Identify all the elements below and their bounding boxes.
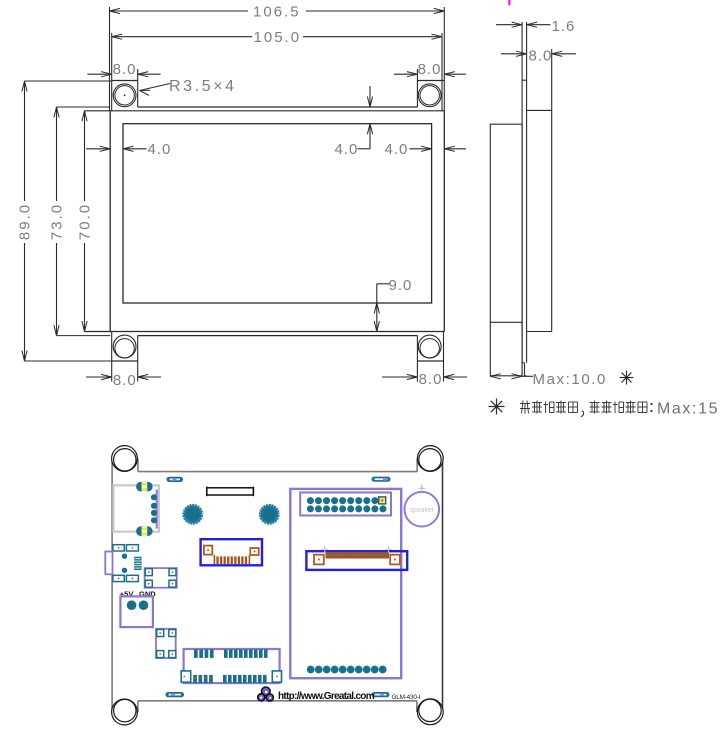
dimension 8.0 bottom-left <box>86 372 161 389</box>
power terminal block <box>120 596 152 627</box>
side view glass block <box>490 124 522 376</box>
top-left mounting tab <box>112 69 138 107</box>
dimension 8.0 top-left <box>87 61 160 78</box>
speaker SP1 <box>405 485 440 527</box>
side connector on board edge <box>105 552 112 575</box>
Greatal logo <box>258 687 274 701</box>
asterisk star after Max:10.0 <box>620 371 634 385</box>
svg-text:106.5: 106.5 <box>253 4 301 21</box>
svg-text:89.0: 89.0 <box>17 203 34 240</box>
note Max:15 <box>657 401 719 418</box>
side view metal plate <box>522 22 527 376</box>
crystal Y1 <box>207 487 254 497</box>
dimension 70.0 <box>77 111 94 332</box>
label R3.5x4 <box>140 78 237 95</box>
svg-text:8.0: 8.0 <box>419 371 443 388</box>
dimension 4.0 right <box>385 141 467 158</box>
header J2 pins row 2 <box>307 505 387 512</box>
svg-text:70.0: 70.0 <box>77 203 94 240</box>
bottom-right mounting tab <box>417 332 443 382</box>
svg-text:speaker: speaker <box>409 507 435 514</box>
note Chinese text: wu tongxun mokuai, jia tongxun mokuai: <box>520 401 653 417</box>
resistor pads R3 R4 <box>113 575 138 581</box>
resistor pads R1 R2 <box>113 545 138 551</box>
via dots <box>122 554 127 574</box>
module outer right edge (106.5 extension) <box>443 7 445 111</box>
dimension 8.0 side <box>501 48 576 65</box>
bottom connector J5 <box>181 649 281 683</box>
display window <box>123 124 432 303</box>
dimension 4.0 left <box>86 141 171 158</box>
dimension 4.0 middle vertical <box>335 86 373 158</box>
dimension 105.0 <box>112 29 442 46</box>
jumper JP4 bottom-right <box>372 692 390 697</box>
bottom-left mounting tab <box>112 332 138 382</box>
svg-text:8.0: 8.0 <box>418 61 442 78</box>
mounting hole top-left R3.5 <box>113 84 136 107</box>
label +5V GND <box>120 590 156 599</box>
jumper JP1 top-left <box>167 477 184 482</box>
side view module body 8.0 deep <box>527 49 552 332</box>
dimension 73.0 <box>49 107 66 336</box>
PCB mounting hole top-left <box>112 446 138 472</box>
USB shield pad top <box>136 482 153 492</box>
module inner right edge (105.0 extension / tab side) <box>441 33 443 111</box>
svg-text:4.0: 4.0 <box>335 141 359 158</box>
svg-text:R3.5×4: R3.5×4 <box>169 78 237 95</box>
pad stack <box>134 557 141 570</box>
module inner left edge (105.0 extension / tab side) <box>111 33 113 111</box>
svg-text:4.0: 4.0 <box>148 141 172 158</box>
component U2 with 4 pads <box>145 568 177 588</box>
FPC connector J3 <box>201 539 262 565</box>
module bottom pin row <box>307 666 387 674</box>
svg-text:Max:15: Max:15 <box>657 401 719 418</box>
USB pins <box>151 494 157 523</box>
svg-text:8.0: 8.0 <box>113 372 137 389</box>
PCB mounting hole bottom-left <box>112 699 138 725</box>
bezel seam bottom <box>57 335 418 337</box>
mounting hole bottom-right R3.5 <box>418 335 441 358</box>
jumper JP3 bottom-left <box>166 692 185 697</box>
PCB mounting hole top-right <box>417 446 443 472</box>
PCB board outline <box>112 459 442 713</box>
top-right mounting tab <box>417 69 444 107</box>
svg-text:73.0: 73.0 <box>49 203 66 240</box>
dimension 8.0 top-right <box>394 61 466 78</box>
svg-text:Max:10.0: Max:10.0 <box>533 371 608 388</box>
jumper JP2 top-right <box>372 477 391 482</box>
dimension Max:10.0 <box>490 371 607 388</box>
LCD module footprint outline <box>290 489 401 678</box>
module outer left edge (106.5 extension) <box>109 7 111 111</box>
dimension 106.5 <box>110 4 445 21</box>
dimension 89.0 <box>17 81 112 361</box>
USB shield pad bottom <box>136 526 153 536</box>
module body outline <box>85 111 445 332</box>
note asterisk star <box>489 399 505 415</box>
svg-text:105.0: 105.0 <box>254 29 302 46</box>
PCB mounting hole bottom-right <box>417 699 443 725</box>
mounting hole top-right R3.5 <box>418 84 441 107</box>
mounting hole bottom-left R3.5 <box>113 335 136 358</box>
dimension 9.0 <box>374 277 412 332</box>
dimension 8.0 bottom-right <box>382 371 467 388</box>
svg-text:8.0: 8.0 <box>529 48 553 65</box>
magenta centre mark <box>508 0 510 5</box>
svg-text:9.0: 9.0 <box>389 277 413 294</box>
component U3 with 4 pads <box>156 629 176 658</box>
svg-text:1.6: 1.6 <box>552 18 576 35</box>
svg-text:8.0: 8.0 <box>113 61 137 78</box>
header J2 2x10 outline <box>300 493 391 516</box>
USB connector J1 <box>113 485 158 531</box>
coil L2 <box>259 504 280 525</box>
bezel seam top <box>57 106 418 108</box>
URL text <box>278 691 375 702</box>
svg-text:4.0: 4.0 <box>385 141 409 158</box>
coil L1 <box>182 504 203 525</box>
header J2 pins row 1 <box>307 497 378 504</box>
FPC connector J4 <box>306 546 407 570</box>
dimension 1.6 <box>496 18 575 35</box>
header J2 pin 20 square pad <box>379 497 386 504</box>
svg-text:GLM-430-I: GLM-430-I <box>392 694 421 701</box>
svg-text:http://www.Greatal.com: http://www.Greatal.com <box>278 691 375 702</box>
board name GLM-430-I <box>392 694 421 701</box>
